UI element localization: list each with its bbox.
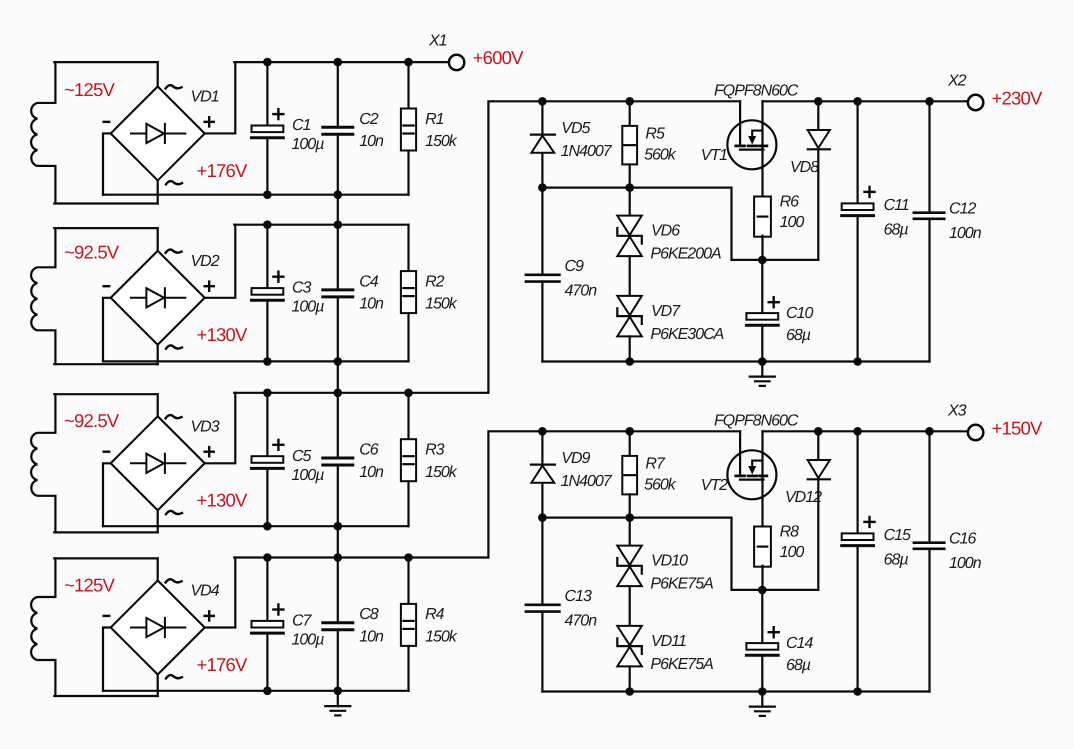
svg-text:P6KE200A: P6KE200A [650,246,721,263]
wire bridge plus to top rail [205,558,236,628]
node dots on minus rail [263,522,342,531]
svg-text:R7: R7 [645,456,666,473]
svg-text:FQPF8N60C: FQPF8N60C [714,82,799,99]
svg-text:VD1: VD1 [191,88,219,105]
transformer winding T3 ~ section [31,394,55,532]
node dot R bottom [758,586,767,595]
wire bridge minus to bottom rail [103,133,111,194]
svg-text:VD4: VD4 [191,583,220,600]
svg-text:VD12: VD12 [785,489,822,506]
svg-text:100: 100 [780,214,805,231]
svg-text:R1: R1 [425,111,444,128]
svg-text:~92.5V: ~92.5V [64,242,120,263]
wire bridge plus to top rail [205,225,236,298]
wire bridge plus to top rail [205,393,236,464]
capacitor C6 10n [323,393,384,526]
svg-text:+230V: +230V [992,88,1043,109]
svg-text:C16: C16 [949,531,976,548]
svg-text:560k: 560k [644,477,677,494]
wire to X1 terminal [409,61,449,63]
wire gate rail [542,188,818,260]
TVS suppressor VD7 P6KE30CA [617,256,723,361]
label +600V [473,47,524,68]
wire bridge minus to bottom rail [103,628,111,691]
svg-text:+130V: +130V [197,490,248,511]
svg-text:~125V: ~125V [64,79,115,100]
transistor VT1 FQPF8N60C [701,82,799,195]
bridge rectifier VD1 [104,85,219,184]
svg-text:+176V: +176V [197,654,248,675]
svg-text:C5: C5 [292,448,312,465]
node dots on minus rail [263,190,342,199]
capacitor C9 470n [526,188,597,362]
node dots gate rail [538,513,634,522]
svg-text:68µ: 68µ [786,327,811,344]
capacitor C11 68µ [842,101,909,361]
resistor R5 560k [622,101,676,187]
label ~92.5V [64,242,120,263]
svg-text:R8: R8 [780,524,800,541]
terminal X1 [428,33,464,71]
wire DC minus rail tier 2 [103,360,409,362]
svg-text:100µ: 100µ [292,467,325,484]
svg-text:C14: C14 [786,635,813,652]
resistor R2 150k [401,225,458,362]
svg-text:10n: 10n [359,629,384,646]
svg-text:1N4007: 1N4007 [561,473,613,490]
svg-text:10n: 10n [359,464,384,481]
svg-text:C3: C3 [292,280,312,297]
wire transformer bottom lead [54,345,157,364]
svg-text:R3: R3 [425,442,445,459]
wire DC plus rail tier 2 [234,224,408,226]
svg-text:+600V: +600V [473,47,524,68]
node dots on plus rail [263,58,413,67]
svg-text:C4: C4 [359,273,379,290]
capacitor C4 10n [323,225,384,362]
wire DC minus rail tier 1 [103,194,409,196]
resistor R3 150k [401,393,458,526]
label ~92.5V [64,410,120,431]
svg-text:C13: C13 [565,588,592,605]
capacitor C15 68µ [842,431,911,691]
svg-text:C6: C6 [359,442,379,459]
wire transformer top lead [54,62,157,86]
wire series link tier3-tier4 [337,526,339,557]
node dots ground rail [625,687,861,696]
svg-text:VD3: VD3 [191,418,220,435]
svg-text:VD9: VD9 [561,450,590,467]
wire series link tier1-tier2 [337,195,339,225]
wire output rail [763,100,968,102]
svg-text:X2: X2 [947,73,967,90]
diode VD5 1N4007 [531,101,613,187]
svg-text:VD10: VD10 [651,553,688,570]
ground symbol main [325,691,350,715]
wire transformer bottom lead [54,180,157,203]
capacitor C5 100µ [252,393,325,526]
svg-text:~92.5V: ~92.5V [64,410,120,431]
wire transformer top lead [54,558,157,580]
resistor R1 150k [401,62,458,195]
svg-text:100: 100 [780,544,805,561]
capacitor C1 100µ [252,62,325,195]
node dot R bottom [758,256,767,265]
transformer winding T1 ~ section [31,62,55,203]
svg-text:VD6: VD6 [651,223,680,240]
svg-text:FQPF8N60C: FQPF8N60C [714,412,799,429]
svg-text:150k: 150k [425,133,458,150]
wire series link tier2-tier3 [337,361,339,392]
svg-text:VD11: VD11 [651,633,686,650]
svg-text:X3: X3 [947,403,967,420]
svg-text:68µ: 68µ [786,657,811,674]
TVS suppressor VD10 P6KE75A [617,518,713,593]
svg-text:+130V: +130V [197,324,248,345]
wire transformer top lead [54,228,157,251]
terminal X2 [947,73,983,111]
label +230V [992,88,1043,109]
node dots on regulator top rail [538,97,934,106]
wire regulator input from divider tap [488,431,740,557]
svg-text:VD7: VD7 [651,303,681,320]
node dots on regulator top rail [538,427,934,436]
resistor R4 150k [401,558,458,691]
svg-text:150k: 150k [425,296,458,313]
wire regulator input from divider tap [488,101,740,393]
svg-text:100n: 100n [949,225,982,242]
node dots on minus rail [263,687,342,696]
svg-text:C11: C11 [884,197,909,214]
TVS suppressor VD11 P6KE75A [617,586,713,691]
capacitor C2 10n [323,62,384,195]
svg-text:~125V: ~125V [64,575,115,596]
wire bridge plus to top rail [205,62,236,133]
node dots on plus rail [263,220,342,229]
transformer winding T4 ~ section [31,558,55,696]
wire bridge minus to bottom rail [103,463,111,526]
svg-text:1N4007: 1N4007 [561,143,613,160]
svg-text:C7: C7 [292,613,313,630]
svg-text:470n: 470n [565,283,598,300]
svg-text:C8: C8 [359,606,379,623]
node dots on plus rail [263,389,413,398]
label +176V [197,160,248,181]
label +130V [197,490,248,511]
svg-text:10n: 10n [359,133,384,150]
svg-text:100µ: 100µ [292,632,325,649]
node dots on minus rail [263,357,342,366]
svg-text:560k: 560k [644,147,677,164]
svg-text:+150V: +150V [992,418,1043,439]
svg-text:R6: R6 [780,194,800,211]
svg-text:C9: C9 [565,258,585,275]
bridge rectifier VD2 [104,249,220,348]
ground symbol under C14 [750,692,775,716]
node dots gate rail [538,183,634,192]
svg-text:VD8: VD8 [790,159,819,176]
svg-text:VD5: VD5 [561,120,590,137]
wire DC plus rail tier 1 [234,61,408,63]
svg-text:R2: R2 [425,273,445,290]
capacitor C10 68µ [746,260,813,362]
svg-text:100n: 100n [949,555,982,572]
svg-text:X1: X1 [428,33,447,50]
resistor R7 560k [622,431,676,517]
diode VD8 [790,101,830,260]
label ~125V [64,79,115,100]
wire DC plus rail tier 4 [234,556,488,558]
svg-text:R5: R5 [645,126,665,143]
node dots ground rail [625,357,861,366]
terminal X3 [947,403,983,441]
wire transformer bottom lead [54,510,157,532]
label +176V [197,654,248,675]
svg-text:68µ: 68µ [884,552,909,569]
wire DC minus rail tier 3 [103,525,409,527]
svg-text:100µ: 100µ [292,136,325,153]
svg-text:C1: C1 [292,117,311,134]
svg-text:150k: 150k [425,464,458,481]
svg-text:VT1: VT1 [701,147,727,164]
wire DC plus rail tier 3 [234,392,488,394]
resistor R8 100 [754,524,804,590]
capacitor C3 100µ [252,225,325,362]
svg-text:470n: 470n [565,613,598,630]
resistor R6 100 [754,194,804,260]
label ~125V [64,575,115,596]
wire regulator ground rail [542,360,929,362]
diode VD12 [785,431,830,590]
svg-text:C15: C15 [884,527,911,544]
diode VD9 1N4007 [531,431,613,517]
transformer winding T2 ~ section [31,228,55,364]
wire transformer bottom lead [54,675,157,697]
svg-text:C10: C10 [786,305,813,322]
svg-text:VT2: VT2 [701,477,728,494]
ground symbol under C10 [750,362,775,386]
bridge rectifier VD4 [104,579,220,678]
svg-text:P6KE75A: P6KE75A [650,576,713,593]
svg-text:C2: C2 [359,111,379,128]
svg-text:VD2: VD2 [191,253,220,270]
capacitor C13 470n [526,518,597,692]
capacitor C7 100µ [252,558,325,691]
capacitor C8 10n [323,558,384,691]
svg-text:68µ: 68µ [884,222,909,239]
wire bridge minus to bottom rail [103,298,111,362]
svg-text:P6KE75A: P6KE75A [650,656,713,673]
label +130V [197,324,248,345]
node dots on plus rail [263,553,413,562]
wire output rail [763,430,968,432]
transistor VT2 FQPF8N60C [701,412,799,525]
svg-text:150k: 150k [425,629,458,646]
capacitor C16 100n [914,431,982,691]
label +150V [992,418,1043,439]
wire regulator ground rail [542,690,929,692]
svg-text:C12: C12 [949,201,976,218]
svg-text:+176V: +176V [197,160,248,181]
wire transformer top lead [54,394,157,416]
bridge rectifier VD3 [104,415,220,514]
wire gate rail [542,518,818,590]
TVS suppressor VD6 P6KE200A [617,188,721,263]
svg-text:10n: 10n [359,296,384,313]
wire DC minus rail tier 4 [103,690,409,692]
capacitor C14 68µ [746,590,813,692]
svg-text:P6KE30CA: P6KE30CA [650,326,723,343]
capacitor C12 100n [914,101,982,361]
svg-text:R4: R4 [425,606,445,623]
svg-text:100µ: 100µ [292,299,325,316]
